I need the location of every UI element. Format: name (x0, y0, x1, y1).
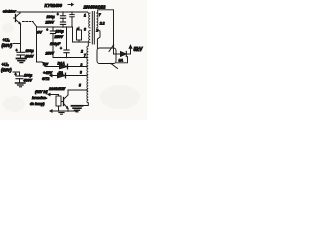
svg-text:+: + (60, 47, 62, 51)
ground (left, under C1) (17, 59, 27, 63)
pin 3 (84, 28, 86, 32)
pin 7 small near winding top (84, 54, 86, 58)
transistor T1 (14, 12, 21, 24)
wire arrow into branch 1 (42, 62, 46, 67)
label bw (43, 62, 48, 66)
svg-text:8A: 8A (119, 58, 124, 62)
wire vertical from 0V corner down to branch corner (37, 27, 43, 62)
capacitor C3 (double, top column x=63) (57, 12, 66, 27)
svg-text:bw: bw (43, 62, 48, 66)
svg-text:elektor: elektor (3, 9, 17, 14)
svg-text:(40V): (40V) (1, 68, 12, 73)
label elektor (top-left word) (3, 9, 17, 14)
pin 2 (95, 29, 98, 33)
pin 7 (99, 13, 102, 17)
svg-text:220k/1W: 220k/1W (48, 86, 66, 91)
label 220k/1W (48, 86, 66, 91)
wire branch 1 (y=66.5) (46, 66, 87, 68)
arrow output up (129, 45, 132, 54)
svg-text:3: 3 (84, 28, 86, 32)
label KY02400 (top middle part number) (45, 3, 63, 8)
junction dots on rails (52, 11, 88, 58)
svg-text:+: + (57, 13, 59, 17)
junction dots on winding (86, 66, 88, 91)
transformer TR1 right winding (secondary top) (96, 13, 98, 28)
transistor T2 (61, 95, 68, 109)
wire base feed y=94.5 with left arrow (48, 93, 59, 96)
label 8A (119, 58, 124, 62)
svg-text:GT2: GT2 (42, 77, 50, 81)
wire right drop from 0V rail (x=72.5) (72, 27, 74, 42)
pin 5 (branch 3 right) (79, 84, 81, 88)
svg-text:(42V bij: (42V bij (35, 90, 48, 94)
wire y=42 joining R1 to transformer pin (73, 41, 89, 43)
ground (under C2) (16, 83, 26, 87)
label C4 value (54, 30, 64, 40)
wire transformer pin stub down to rail (87, 42, 89, 46)
svg-text:5kV: 5kV (134, 47, 144, 53)
label C5 value (45, 42, 62, 56)
svg-text:100µF: 100µF (50, 42, 61, 46)
capacitor C5 (x=66.5 column) (60, 27, 69, 58)
svg-text:250V: 250V (45, 21, 55, 25)
svg-text:100µ: 100µ (47, 15, 55, 19)
ground (bottom right, heavy) (72, 106, 83, 112)
wire rail 0V (y=27) (37, 26, 73, 28)
wire transformer top-right pin over the top to x=113.5 (98, 10, 114, 54)
switch at box lower-right (110, 63, 117, 69)
transformer TR1 core (92, 12, 94, 45)
svg-text:de lamp): de lamp) (30, 102, 45, 106)
wire emitter left column down (20, 24, 22, 52)
svg-text:+42V: +42V (43, 71, 52, 75)
svg-text:250V: 250V (54, 35, 64, 39)
label 2N4891#2 (transformer part number) (83, 5, 106, 10)
capacitor C1 100u 400V (16, 49, 25, 59)
svg-text:KY02400: KY02400 (45, 3, 63, 8)
pin 3 (branch 2 right) (80, 71, 82, 75)
svg-text:7: 7 (99, 13, 102, 17)
svg-text:3: 3 (80, 71, 82, 75)
svg-text:2: 2 (80, 63, 83, 67)
node pin 2 label (mid) (80, 50, 83, 54)
label 2.2 (99, 22, 105, 26)
wire transformer top-left pin to rail (88, 12, 89, 13)
svg-text:250V: 250V (45, 52, 55, 56)
switch blade into box (109, 45, 114, 52)
pin 2 (branch 1 right) (80, 63, 83, 67)
svg-text:7: 7 (84, 54, 86, 58)
wire diode return down-left (117, 57, 128, 63)
svg-text:2.2: 2.2 (99, 22, 105, 26)
capacitor C6 small (hangs from top rail at x=72) (70, 12, 74, 27)
svg-text:2: 2 (80, 50, 83, 54)
label GT2 (42, 77, 50, 81)
svg-text:100µ: 100µ (26, 49, 34, 53)
label +42V (43, 71, 52, 75)
transformer TR1 long secondary winding (going down) (87, 46, 88, 103)
battery U1 label (2, 38, 13, 49)
transformer TR1 left winding (primary) (89, 13, 91, 43)
svg-text:n: n (77, 27, 79, 31)
wire T2 collector up to branch 3 (68, 90, 87, 95)
label D1A (58, 62, 66, 66)
resistor R2 220k (vertical box) (56, 96, 61, 111)
ground (small, under bottom wire) (59, 113, 64, 115)
svg-text:0V: 0V (37, 30, 42, 35)
text note 42V bij brandende lamp (30, 90, 48, 106)
node 0V label (37, 30, 42, 35)
svg-text:1: 1 (84, 14, 86, 18)
wire T2 emitter down to bottom wire (67, 109, 69, 112)
resistor R1 (box, left of transformer) (77, 27, 82, 43)
svg-text:100µ: 100µ (24, 74, 32, 78)
svg-text:100µ: 100µ (56, 30, 64, 34)
wire U1 to left column (13, 43, 21, 45)
wire top rail (17, 11, 88, 13)
wire branch 2 (y=75.5) (50, 74, 87, 76)
wire bottom y=111 with left arrow (50, 110, 77, 112)
svg-text:+U₂: +U₂ (2, 62, 10, 67)
wire U2 to C2 (13, 72, 20, 76)
label C3 value (left of top cap column) (45, 15, 55, 25)
diode D2 (HV rectifier) (121, 51, 131, 56)
box (rounded module outline) (97, 48, 116, 64)
capacitor C2 100u 400V (15, 73, 24, 83)
wire secondary lower pin down into box top (97, 30, 100, 48)
wire secondary bottom to ground (78, 103, 88, 106)
capacitor C4 (x=53 column) (46, 27, 55, 58)
wire dashed base/control line (23, 21, 34, 23)
battery U2 label (1, 62, 12, 73)
label 5kV (134, 47, 144, 53)
arrow after KY02400 (68, 3, 73, 5)
label C2 value (23, 74, 33, 83)
svg-text:400V: 400V (23, 79, 33, 83)
wire diagonal into 0V corner (33, 22, 37, 27)
svg-text:+U₁: +U₁ (3, 38, 11, 43)
svg-text:+: + (46, 28, 48, 32)
label 5A (59, 71, 64, 75)
wire box to diode (113, 44, 121, 54)
svg-text:5: 5 (79, 84, 81, 88)
diode D1B (filled) (58, 73, 66, 78)
diode D1A (filled) (60, 64, 68, 69)
svg-text:branden-: branden- (32, 96, 48, 100)
svg-text:2N4891#2: 2N4891#2 (83, 5, 106, 10)
pin 1 (84, 14, 86, 18)
svg-text:2: 2 (95, 29, 98, 33)
label C1 value (24, 49, 34, 59)
svg-text:(40V): (40V) (2, 43, 13, 48)
wire rail y=57.5 (53, 57, 87, 59)
